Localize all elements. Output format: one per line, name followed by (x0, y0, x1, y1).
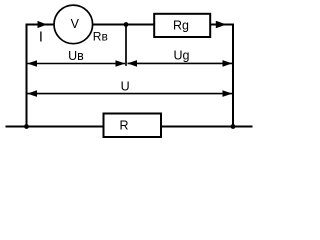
junction node bottom-right (231, 124, 236, 129)
svg-text:Rв: Rв (93, 30, 108, 44)
wire: left vertical conductor (26, 25, 28, 127)
dimension line U (27, 90, 232, 97)
wire: bottom horizontal, left segment (6, 126, 104, 128)
wire: top horizontal, middle segment (92, 24, 154, 26)
wire: top horizontal, left segment (26, 24, 55, 26)
current direction arrow I (38, 21, 48, 28)
voltmeter V (54, 5, 93, 44)
dimension line Uв (27, 60, 125, 67)
svg-text:Ug: Ug (174, 49, 190, 63)
current direction arrow (after Rg) (216, 21, 227, 29)
svg-text:R: R (119, 118, 128, 132)
junction node on top wire (124, 22, 129, 27)
wire: top horizontal, right segment (210, 24, 234, 26)
svg-text:Uв: Uв (68, 49, 84, 63)
svg-text:V: V (71, 17, 80, 31)
junction node bottom-left (24, 124, 29, 129)
resistor R (104, 114, 162, 138)
svg-text:U: U (121, 79, 130, 93)
dimension line Ug (127, 60, 232, 67)
svg-text:Rg: Rg (173, 19, 189, 33)
wire: right vertical conductor (232, 25, 234, 127)
wire: bottom horizontal, right segment (161, 126, 253, 128)
resistor Rg (154, 14, 210, 37)
wire: middle vertical extension line (125, 25, 127, 66)
svg-text:I: I (39, 29, 43, 45)
